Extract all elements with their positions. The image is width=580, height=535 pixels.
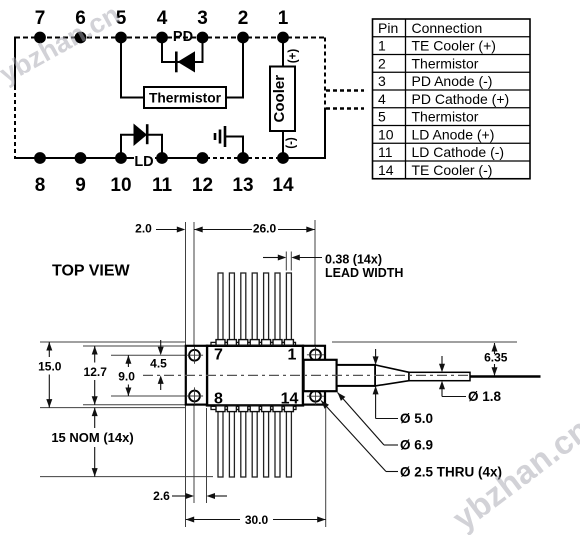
dimension 4.5 xyxy=(150,340,167,390)
label LD background xyxy=(134,156,155,167)
pin 8 xyxy=(34,152,46,196)
dimension 30.0 xyxy=(186,513,326,527)
svg-text:13: 13 xyxy=(232,175,253,196)
dimension 12.7 xyxy=(84,346,108,405)
wire left edge lower (dashed) xyxy=(14,86,16,159)
lead 6 foot top xyxy=(227,340,236,346)
thermistor box xyxy=(144,87,226,108)
svg-text:Cooler: Cooler xyxy=(271,75,288,123)
wire dashed stub lower to table xyxy=(326,107,364,109)
extension line lead tips bottom xyxy=(40,476,213,478)
wire right edge upper (dashed) xyxy=(324,38,326,109)
leader diameter 6.9 xyxy=(338,393,434,453)
lead 10 foot bottom xyxy=(239,406,248,412)
svg-text:2.0: 2.0 xyxy=(135,222,152,236)
lead 12 pin bottom xyxy=(264,411,269,477)
svg-text:(+): (+) xyxy=(287,49,299,64)
svg-text:10: 10 xyxy=(378,126,394,142)
lead 12 foot bottom xyxy=(262,406,271,412)
mounting hole 3 (2.5 THRU) xyxy=(307,346,324,363)
svg-text:TE Cooler (-): TE Cooler (-) xyxy=(412,162,493,178)
svg-text:Pin: Pin xyxy=(378,20,398,36)
wire PD loop xyxy=(162,38,203,63)
fiber ferrule tube (1.8 dia) xyxy=(409,372,470,380)
pin 10 xyxy=(110,152,131,196)
wire LD left xyxy=(121,135,134,158)
svg-text:Thermistor: Thermistor xyxy=(412,109,479,125)
lead 9 foot bottom xyxy=(227,406,236,412)
extension line lid top right xyxy=(332,341,517,343)
photodiode PD cathode bar xyxy=(175,52,178,73)
extension line hole-center-right vertical xyxy=(314,220,316,346)
svg-text:Ø 1.8: Ø 1.8 xyxy=(468,389,502,404)
lead 14 pin bottom xyxy=(286,411,291,477)
photodiode PD triangle xyxy=(178,51,196,72)
svg-text:2.6: 2.6 xyxy=(153,489,170,503)
svg-text:12.7: 12.7 xyxy=(84,365,108,379)
svg-text:LEAD WIDTH: LEAD WIDTH xyxy=(325,266,403,280)
leader diameter 2.5 THRU (4x) xyxy=(321,401,502,480)
lead 14 foot bottom xyxy=(284,406,293,412)
wire cooler top xyxy=(282,38,284,67)
mounting flange right xyxy=(303,346,325,405)
lead 7 foot top xyxy=(216,340,225,346)
mounting hole 1 (2.5 THRU) xyxy=(186,347,203,364)
dimension 15 NOM (14x) xyxy=(51,408,133,477)
snout collar (6.9 dia) xyxy=(304,360,337,391)
dimension 0.38 lead width xyxy=(263,252,403,281)
svg-text:TE Cooler (+): TE Cooler (+) xyxy=(412,38,496,54)
svg-text:15.0: 15.0 xyxy=(38,360,62,374)
svg-text:30.0: 30.0 xyxy=(245,513,269,527)
pin 14 xyxy=(272,152,294,196)
svg-text:LD Cathode (-): LD Cathode (-) xyxy=(412,144,505,160)
package body xyxy=(207,346,303,406)
svg-text:8: 8 xyxy=(214,391,223,408)
lead 11 pin bottom xyxy=(252,411,257,477)
lead 1 foot top xyxy=(284,340,293,346)
wire cooler bottom xyxy=(282,131,284,158)
svg-text:Thermistor: Thermistor xyxy=(412,55,479,71)
svg-text:TOP VIEW: TOP VIEW xyxy=(52,263,131,280)
svg-text:14: 14 xyxy=(281,391,299,408)
dimension 15.0 xyxy=(38,342,62,408)
cooler box xyxy=(270,67,295,132)
photodiode PD circuit xyxy=(162,29,203,73)
mechanical drawing TOP VIEW xyxy=(38,220,540,527)
TE cooler circuit xyxy=(270,38,299,159)
wire thermistor right xyxy=(226,38,243,98)
extension line flange bottom xyxy=(83,404,186,406)
wire dashed stub upper to table xyxy=(326,89,364,91)
svg-text:7: 7 xyxy=(35,8,46,29)
extension line hole top xyxy=(111,354,186,356)
lead 1 pin top xyxy=(286,273,291,341)
dimension 6.35 xyxy=(484,343,508,376)
pin 1 xyxy=(277,8,289,43)
svg-text:(-): (-) xyxy=(286,137,298,149)
svg-text:PD Anode (-): PD Anode (-) xyxy=(412,73,493,89)
svg-text:12: 12 xyxy=(192,175,213,196)
wire LD right xyxy=(148,135,163,158)
lead 9 pin bottom xyxy=(229,411,234,477)
laser diode LD circuit xyxy=(121,124,162,171)
extension line lid top left xyxy=(40,341,186,343)
svg-text:LD: LD xyxy=(134,154,153,170)
laser diode LD triangle xyxy=(134,124,148,147)
svg-text:0.38 (14x): 0.38 (14x) xyxy=(325,253,382,267)
lead 7 pin top xyxy=(218,273,223,341)
svg-text:Ø 5.0: Ø 5.0 xyxy=(400,411,433,426)
svg-text:1: 1 xyxy=(378,38,386,54)
lead 5 foot top xyxy=(239,340,248,346)
optical fiber xyxy=(470,375,541,378)
ground bar mid xyxy=(219,130,222,144)
extension line flange top xyxy=(83,345,186,347)
svg-text:9: 9 xyxy=(75,175,86,196)
svg-text:3: 3 xyxy=(197,8,208,29)
leader diameter 5.0 xyxy=(373,349,433,426)
lead 3 foot top xyxy=(262,340,271,346)
svg-text:2: 2 xyxy=(238,8,249,29)
svg-text:8: 8 xyxy=(35,175,46,196)
mounting hole 4 (2.5 THRU) xyxy=(307,388,324,405)
lead 2 foot top xyxy=(273,340,282,346)
pin 9 xyxy=(75,152,87,196)
svg-text:4: 4 xyxy=(157,8,168,29)
dimension 9.0 xyxy=(118,355,135,396)
pin 3 xyxy=(197,8,209,43)
svg-text:PD: PD xyxy=(173,29,193,45)
snout taper xyxy=(375,365,409,386)
svg-text:15 NOM (14x): 15 NOM (14x) xyxy=(51,430,133,445)
lead 13 pin bottom xyxy=(275,411,280,477)
svg-text:7: 7 xyxy=(214,347,223,364)
svg-text:Connection: Connection xyxy=(412,20,483,36)
pin 12 xyxy=(192,152,213,196)
svg-text:1: 1 xyxy=(278,8,289,29)
lead 13 foot bottom xyxy=(273,406,282,412)
pin 5 xyxy=(115,8,127,43)
pin 13 xyxy=(232,152,253,196)
ground bar short xyxy=(214,133,217,140)
pin 4 xyxy=(156,8,168,43)
svg-text:Thermistor: Thermistor xyxy=(149,91,222,106)
lead 2 pin top xyxy=(275,273,280,341)
extension line hole-center-left vertical xyxy=(193,222,195,503)
pin 11 xyxy=(152,152,173,196)
svg-text:3: 3 xyxy=(378,73,386,89)
svg-text:1: 1 xyxy=(288,347,297,364)
svg-text:4.5: 4.5 xyxy=(150,357,167,371)
svg-text:10: 10 xyxy=(110,175,131,196)
dimension 26.0 xyxy=(194,222,315,236)
lead 11 foot bottom xyxy=(250,406,259,412)
svg-text:14: 14 xyxy=(272,175,294,196)
svg-text:5: 5 xyxy=(378,109,386,125)
extension line hole bottom xyxy=(111,395,186,397)
extension line flange-right vertical xyxy=(325,406,327,527)
lead 6 pin top xyxy=(229,273,234,341)
svg-text:14: 14 xyxy=(378,162,394,178)
lead 10 pin bottom xyxy=(241,411,246,477)
pin 6 xyxy=(75,8,87,43)
thermistor circuit xyxy=(121,38,243,109)
wire bottom edge left (solid) xyxy=(14,157,206,159)
wire bottom edge right (solid) xyxy=(283,157,326,159)
leader diameter 1.8 xyxy=(439,356,502,404)
svg-text:9.0: 9.0 xyxy=(118,370,135,384)
wire thermistor left xyxy=(121,38,144,98)
dimension 2.0 xyxy=(135,222,185,236)
package lid strip bottom xyxy=(211,406,296,409)
wire ground xyxy=(226,137,243,159)
extension line lid bottom xyxy=(40,407,186,409)
wire bottom edge middle (dashed) xyxy=(206,157,283,159)
svg-text:11: 11 xyxy=(152,175,173,196)
case ground at pin 13 xyxy=(215,126,243,158)
snout cylinder (5.0 dia) xyxy=(337,365,376,386)
svg-text:4: 4 xyxy=(378,91,386,107)
lead 5 pin top xyxy=(241,273,246,341)
mounting hole 2 (2.5 THRU) xyxy=(186,387,203,404)
svg-text:11: 11 xyxy=(378,144,393,160)
svg-text:PD Cathode (+): PD Cathode (+) xyxy=(412,91,510,107)
wire top edge (dashed) xyxy=(15,37,325,39)
ground bar tall xyxy=(224,126,227,147)
dimension 2.6 xyxy=(153,489,227,503)
package lid strip top xyxy=(211,342,296,345)
centerline xyxy=(143,374,469,376)
pin connection table xyxy=(373,19,531,179)
wire right edge lower (solid) xyxy=(324,109,326,160)
pin 2 xyxy=(237,8,249,43)
svg-text:2: 2 xyxy=(378,55,386,71)
mounting flange left xyxy=(186,346,207,405)
svg-text:Ø 6.9: Ø 6.9 xyxy=(400,438,433,453)
svg-text:26.0: 26.0 xyxy=(253,222,277,236)
extension line flange-left vertical xyxy=(185,222,187,527)
lead 8 pin bottom xyxy=(218,411,223,477)
svg-text:LD Anode (+): LD Anode (+) xyxy=(412,126,495,142)
wire left edge upper (solid) xyxy=(14,37,16,87)
lead 4 foot top xyxy=(250,340,259,346)
lead 3 pin top xyxy=(264,273,269,341)
pin 7 xyxy=(34,8,46,43)
lead 4 pin top xyxy=(252,273,257,341)
laser diode LD cathode bar xyxy=(146,124,149,144)
svg-text:6.35: 6.35 xyxy=(484,351,508,365)
lead 8 foot bottom xyxy=(216,406,225,412)
extension line body-left vertical xyxy=(206,408,208,503)
